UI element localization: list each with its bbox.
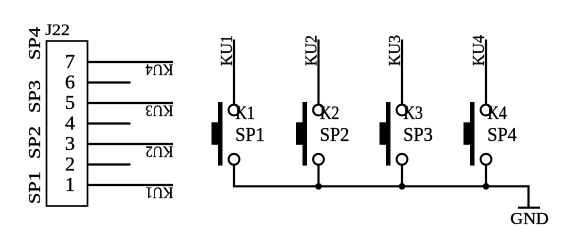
svg-text:SP2: SP2	[320, 124, 350, 146]
svg-text:K4: K4	[487, 103, 507, 124]
svg-text:KU4: KU4	[146, 61, 174, 78]
switch K2 actuator bar	[303, 102, 308, 166]
switch K2 / SP2 group	[296, 35, 349, 186]
svg-text:6: 6	[65, 72, 75, 94]
switch K4 button	[464, 122, 475, 145]
switch K3 top terminal	[397, 105, 408, 116]
switch K3 / SP3 group	[380, 35, 433, 186]
switch K1 actuator bar	[218, 102, 223, 166]
svg-text:K3: K3	[403, 103, 423, 124]
wire bottom of K2	[317, 165, 319, 187]
svg-text:SP2: SP2	[25, 126, 44, 159]
switch K2 bottom terminal	[313, 154, 324, 165]
svg-text:SP1: SP1	[25, 171, 44, 204]
svg-text:K1: K1	[235, 103, 255, 124]
ground bus wire	[233, 185, 529, 187]
svg-text:J22: J22	[45, 22, 70, 39]
wire bottom of K1	[233, 165, 235, 187]
switch K4 top terminal	[481, 105, 492, 116]
switch K1 top terminal	[229, 105, 240, 116]
wire top of K4	[485, 40, 487, 105]
svg-text:KU2: KU2	[146, 143, 174, 160]
wire pin 7	[88, 61, 174, 63]
wire pin 6	[88, 81, 131, 83]
wire pin 3	[88, 143, 174, 145]
junction dot at K3	[399, 183, 406, 190]
switch K2 top terminal	[313, 105, 324, 116]
switch K2 button	[296, 122, 307, 145]
switch K3 button	[380, 122, 391, 145]
svg-text:4: 4	[65, 113, 75, 135]
connector J22 body	[47, 41, 88, 206]
svg-text:GND: GND	[510, 209, 549, 228]
wire pin 2	[88, 163, 131, 165]
svg-text:KU3: KU3	[146, 102, 174, 119]
junction dot at K2	[315, 183, 322, 190]
switch K1 button	[212, 122, 223, 145]
svg-text:3: 3	[65, 133, 75, 155]
svg-text:SP3: SP3	[403, 124, 433, 146]
wire to GND	[527, 185, 529, 208]
switch K4 actuator bar	[470, 102, 475, 166]
svg-text:SP4: SP4	[25, 26, 44, 60]
svg-text:K2: K2	[320, 103, 340, 124]
switch K3 actuator bar	[386, 102, 391, 166]
svg-text:5: 5	[65, 92, 75, 114]
junction dot at K4	[483, 183, 490, 190]
wire bottom of K3	[401, 165, 403, 187]
switch K4 bottom terminal	[481, 154, 492, 165]
wire pin 5	[88, 102, 174, 104]
wire pin 4	[88, 122, 131, 124]
switch K1 bottom terminal	[229, 154, 240, 165]
wire bottom of K4	[485, 165, 487, 187]
switch K3 bottom terminal	[397, 154, 408, 165]
svg-text:SP3: SP3	[25, 80, 44, 113]
switch K4 / SP4 group	[464, 35, 517, 187]
wire top of K2	[317, 40, 319, 105]
svg-text:1: 1	[65, 174, 75, 196]
svg-text:SP4: SP4	[487, 124, 517, 146]
svg-text:2: 2	[65, 154, 75, 176]
wire top of K3	[401, 40, 403, 105]
wire top of K1	[233, 40, 235, 105]
switch K1 / SP1 group	[212, 35, 265, 186]
ground symbol bar	[518, 207, 540, 209]
svg-text:7: 7	[65, 51, 75, 73]
wire pin 1	[88, 184, 174, 186]
svg-text:SP1: SP1	[235, 124, 264, 146]
svg-text:KU1: KU1	[146, 184, 174, 201]
